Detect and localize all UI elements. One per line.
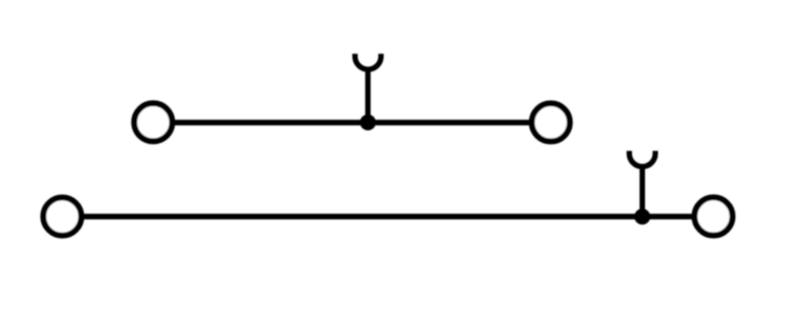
test tap TP1 (upper level) — [355, 56, 381, 69]
wire upper level conductor — [153, 120, 551, 126]
terminal 4 (lower right clamp) — [695, 197, 733, 235]
junction upper node — [360, 114, 376, 130]
test tap TP2 (lower level) — [629, 154, 655, 167]
wire upper tap stem — [365, 69, 370, 122]
junction lower node — [634, 209, 650, 225]
terminal 3 (lower left clamp) — [43, 198, 81, 236]
wire lower level conductor — [62, 214, 713, 220]
terminal 2 (upper right clamp) — [532, 103, 570, 141]
wire lower tap stem — [640, 167, 645, 217]
terminal 1 (upper left clamp) — [134, 103, 172, 141]
